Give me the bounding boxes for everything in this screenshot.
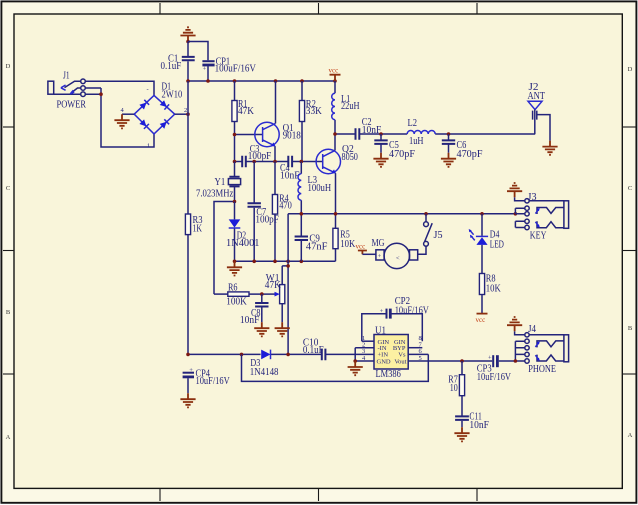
capacitor C4 xyxy=(288,156,292,168)
svg-text:B: B xyxy=(628,325,633,332)
svg-text:1uH: 1uH xyxy=(409,135,424,147)
svg-text:33K: 33K xyxy=(306,105,322,117)
op-amp U1 LM386 xyxy=(353,324,492,380)
svg-text:J4: J4 xyxy=(528,323,536,335)
wire (Q1 base wire) xyxy=(235,134,263,136)
svg-text:A: A xyxy=(628,432,633,439)
capacitor C7 xyxy=(253,162,255,262)
wire (J1 pins 2,3 to bridge bottom) xyxy=(85,88,154,147)
pin 4 stub xyxy=(355,348,374,361)
svg-text:470pF: 470pF xyxy=(389,148,415,160)
capacitor C1 xyxy=(182,57,195,60)
capacitor C10 xyxy=(322,349,326,361)
connector J4 PHONE xyxy=(514,323,569,375)
svg-text:100uF/16V: 100uF/16V xyxy=(215,63,256,75)
svg-text:470: 470 xyxy=(279,200,292,212)
bridge rectifier D1 2W10 xyxy=(121,81,188,150)
polarized capacitor CP2 xyxy=(362,295,429,341)
svg-text:10uF/16V: 10uF/16V xyxy=(196,375,230,387)
capacitor C5 xyxy=(380,134,382,153)
wire (CP1 bottom) xyxy=(207,66,209,81)
polarized capacitor CP3 xyxy=(477,354,516,383)
svg-text:0.1uF: 0.1uF xyxy=(161,60,182,72)
svg-text:+: + xyxy=(380,308,384,315)
wire (audio feedback bottom line) xyxy=(242,354,429,381)
wire (bridge right pin to rail) xyxy=(175,113,188,115)
svg-text:D: D xyxy=(6,63,11,70)
potentiometer W1 xyxy=(265,266,285,322)
svg-text:1: 1 xyxy=(147,143,150,150)
svg-text:8050: 8050 xyxy=(342,151,359,163)
svg-text:C: C xyxy=(628,185,632,192)
polarized capacitor CP1 xyxy=(202,60,214,62)
inductor L2 1uH xyxy=(407,131,435,134)
svg-text:0.1uF: 0.1uF xyxy=(303,344,324,356)
svg-text:+: + xyxy=(488,354,492,361)
svg-text:A: A xyxy=(6,434,11,441)
svg-text:10K: 10K xyxy=(340,238,355,250)
capacitor C8 xyxy=(261,294,263,322)
svg-text:-: - xyxy=(147,86,149,93)
LED D4 xyxy=(469,214,504,274)
svg-text:+: + xyxy=(378,253,382,260)
resistor R6 xyxy=(214,281,270,307)
svg-text:KEY: KEY xyxy=(530,229,547,241)
ground (C8) xyxy=(254,322,269,336)
ground (CP4) xyxy=(180,393,195,407)
pin 6 stub to bottom line xyxy=(408,353,428,355)
wire (ground to C1/CP1) xyxy=(188,42,208,61)
svg-text:<: < xyxy=(396,255,400,262)
svg-text:9018: 9018 xyxy=(283,129,302,141)
svg-text:7.023MHz: 7.023MHz xyxy=(196,187,233,199)
pin 1 stub xyxy=(362,340,374,342)
power port VCC xyxy=(329,67,341,81)
junction xyxy=(186,40,190,44)
svg-text:vcc: vcc xyxy=(356,243,366,251)
ground (bridge AC pin) xyxy=(114,114,129,128)
wire (node A: base bias line) xyxy=(235,161,323,163)
svg-text:MG: MG xyxy=(372,237,385,249)
svg-text:L2: L2 xyxy=(408,117,418,129)
svg-text:100uH: 100uH xyxy=(308,182,332,194)
svg-text:22uH: 22uH xyxy=(341,100,360,112)
svg-text:1N4148: 1N4148 xyxy=(250,366,279,378)
pin 2 stub xyxy=(355,347,374,349)
wire (Y1 left branch to R6) xyxy=(214,202,235,295)
wire (left supply vertical x188) xyxy=(187,81,189,354)
ground (C11) xyxy=(454,427,469,441)
svg-text:Y1: Y1 xyxy=(215,176,226,188)
switch J5 xyxy=(418,214,443,255)
svg-text:B: B xyxy=(6,309,11,316)
node VCC rail xyxy=(188,80,335,82)
wire (J1 pin1 to bridge top) xyxy=(85,81,154,95)
polarized capacitor CP4 xyxy=(183,367,230,393)
svg-text:vcc: vcc xyxy=(476,316,486,324)
ground (J2) xyxy=(542,141,557,155)
ground (W1) xyxy=(275,322,290,336)
capacitor C9 xyxy=(300,214,302,261)
wire (Q2 collector) xyxy=(334,134,336,150)
transistor Q1 9018 xyxy=(255,122,301,147)
wire (Q1 emitter) xyxy=(274,146,276,161)
svg-text:10uF/16V: 10uF/16V xyxy=(477,371,511,383)
resistor R4 xyxy=(274,162,276,262)
svg-text:vcc: vcc xyxy=(329,67,339,75)
capacitor C6 xyxy=(448,134,450,153)
svg-text:10: 10 xyxy=(450,382,458,394)
ground (main bus ground) xyxy=(227,261,242,275)
svg-text:LM386: LM386 xyxy=(376,368,402,380)
ground (J3) xyxy=(507,183,522,197)
svg-text:47K: 47K xyxy=(238,105,254,117)
svg-text:10K: 10K xyxy=(486,283,501,295)
connector J1 POWER xyxy=(48,70,87,111)
svg-text:100pF: 100pF xyxy=(248,150,271,162)
svg-text:R6: R6 xyxy=(228,281,238,293)
svg-text:10nF: 10nF xyxy=(240,314,260,326)
connector J2 ANT antenna xyxy=(528,81,551,141)
ground (top filter ground) xyxy=(180,27,195,41)
power port VCC (below R8) xyxy=(476,295,488,324)
svg-text:10uF/16V: 10uF/16V xyxy=(395,304,429,316)
svg-text:100K: 100K xyxy=(226,295,247,307)
svg-text:+: + xyxy=(189,367,193,374)
svg-text:GND: GND xyxy=(377,358,391,365)
node ground bus xyxy=(235,260,336,262)
svg-text:10nF: 10nF xyxy=(280,170,300,182)
svg-text:D: D xyxy=(628,66,633,73)
wire (Q1 collector) xyxy=(275,81,277,123)
svg-text:10nF: 10nF xyxy=(362,124,382,136)
resistor R1 xyxy=(234,81,236,162)
svg-text:470pF: 470pF xyxy=(457,148,483,160)
svg-text:ANT: ANT xyxy=(528,90,546,102)
ground (C6) xyxy=(441,153,456,167)
svg-text:POWER: POWER xyxy=(57,99,87,111)
svg-text:47nF: 47nF xyxy=(306,241,328,253)
inductor L1 22uH xyxy=(334,81,336,134)
svg-text:J3: J3 xyxy=(528,191,537,203)
resistor R7 xyxy=(448,359,464,416)
capacitor C11 xyxy=(455,416,469,420)
ground (U1 pins 2,4) xyxy=(348,361,363,375)
junction xyxy=(99,92,103,96)
diode D2 1N4001 xyxy=(234,202,236,262)
resistor R3 xyxy=(185,214,190,235)
wire (RF output line) xyxy=(335,133,535,135)
wire (key line drop to W1 / detector) xyxy=(282,214,288,355)
ground (J4) xyxy=(507,317,522,331)
capacitor C2 xyxy=(356,128,360,140)
svg-text:J5: J5 xyxy=(434,229,443,241)
svg-text:+: + xyxy=(203,66,207,73)
svg-text:47K: 47K xyxy=(265,279,281,291)
wire (detector/supply line y=354.4) xyxy=(188,353,374,355)
svg-text:2W10: 2W10 xyxy=(162,89,183,101)
svg-text:LED: LED xyxy=(490,239,504,251)
ground (C5) xyxy=(373,153,388,167)
wire (bridge left pin to ground) xyxy=(122,113,134,115)
wire (C1 bottom) xyxy=(187,61,189,81)
svg-text:10nF: 10nF xyxy=(469,419,489,431)
svg-text:J1: J1 xyxy=(63,70,70,82)
connector J3 KEY xyxy=(515,191,569,242)
pin 5 stub (Vout) xyxy=(408,360,492,362)
diode D3 1N4148 xyxy=(261,350,270,360)
resistor R5 xyxy=(335,214,337,261)
power port VCC (microphone) xyxy=(356,243,376,255)
pin 7 stub xyxy=(408,347,422,349)
inductor L3 100uH xyxy=(300,162,302,214)
wire (key/signal line) xyxy=(288,213,515,215)
svg-text:Vout: Vout xyxy=(394,358,406,365)
svg-text:PHONE: PHONE xyxy=(528,363,556,375)
transistor Q2 8050 xyxy=(316,143,358,174)
microphone MG xyxy=(372,237,418,268)
resistor R8 xyxy=(479,274,484,295)
svg-text:C: C xyxy=(6,185,10,192)
crystal Y1 7.023MHz xyxy=(196,162,241,202)
junction xyxy=(186,112,190,116)
svg-text:U1: U1 xyxy=(375,324,386,336)
wire (Q2 emitter) xyxy=(335,173,337,214)
svg-text:1K: 1K xyxy=(193,223,203,235)
capacitor C3 xyxy=(242,156,246,168)
resistor R2 xyxy=(301,81,303,162)
